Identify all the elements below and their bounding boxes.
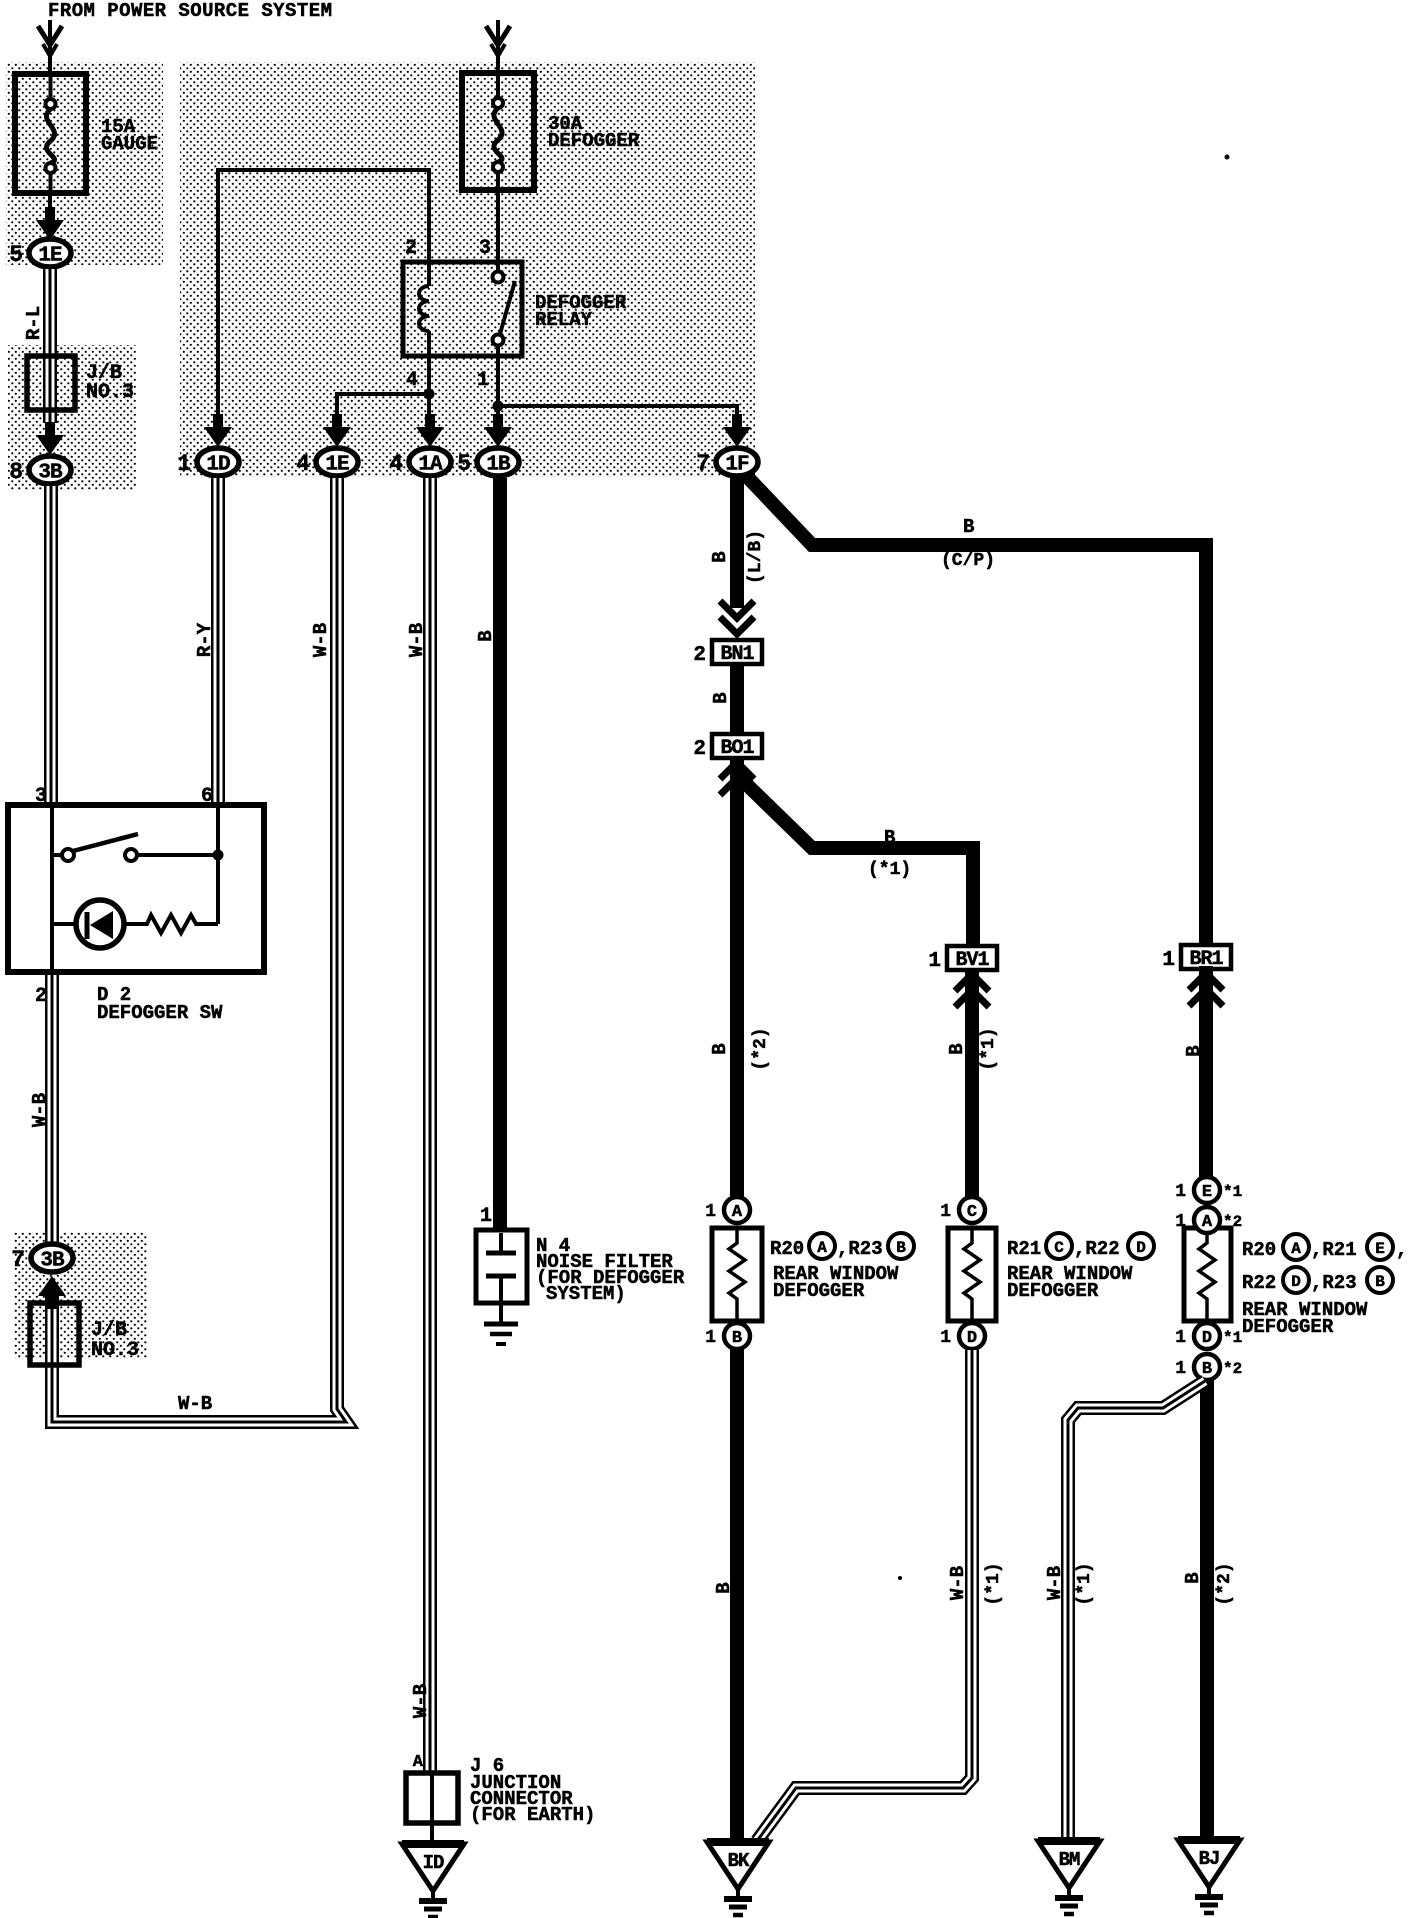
svg-text:8: 8 xyxy=(9,459,23,485)
svg-text:A: A xyxy=(1291,1240,1301,1258)
svg-text:1A: 1A xyxy=(418,454,443,477)
svg-text:,R23: ,R23 xyxy=(1311,1272,1357,1294)
scan speck 2 xyxy=(898,1576,902,1580)
chevron arrow down into BN1 xyxy=(720,601,754,618)
svg-text:W-B: W-B xyxy=(947,1566,969,1600)
svg-text:3B: 3B xyxy=(40,1250,65,1273)
svg-text:BN1: BN1 xyxy=(720,643,754,666)
defogger 3 pin E *1 xyxy=(1175,1177,1242,1203)
svg-text:1: 1 xyxy=(940,1328,951,1348)
svg-text:3: 3 xyxy=(479,237,491,260)
label: N 4 NOISE FILTER (FOR DEFOGGER SYSTEM) xyxy=(536,1235,685,1305)
connector 4 (1E) xyxy=(296,448,358,477)
svg-text:R21: R21 xyxy=(1007,1238,1041,1260)
svg-text:C: C xyxy=(1054,1239,1064,1257)
label: R20 (A), R23 (B) REAR WINDOW DEFOGGER xyxy=(770,1233,914,1302)
svg-text:D: D xyxy=(1202,1329,1212,1348)
wire B (C/P): 1F across to BR1 xyxy=(737,466,1206,947)
svg-text:DEFOGGER SW: DEFOGGER SW xyxy=(97,1002,223,1024)
chevron arrow up into BR1 xyxy=(1189,973,1223,990)
fuse 30A DEFOGGER xyxy=(462,72,534,191)
svg-text:W-B: W-B xyxy=(406,623,428,657)
svg-text:3B: 3B xyxy=(38,462,63,485)
label: J 6 JUNCTION CONNECTOR (FOR EARTH) xyxy=(470,1755,595,1826)
wire B: BR1 down to defogger 3 xyxy=(1199,966,1213,1177)
junction block J/B No.3 (upper) xyxy=(27,356,75,410)
svg-text:R20: R20 xyxy=(1242,1239,1276,1261)
svg-text:1E: 1E xyxy=(38,245,62,268)
svg-text:2: 2 xyxy=(405,237,417,260)
svg-text:W-B: W-B xyxy=(1044,1566,1066,1600)
arrow into connector 1A xyxy=(416,414,444,447)
svg-text:1: 1 xyxy=(1162,949,1175,972)
defogger 2 pin C xyxy=(940,1197,985,1223)
svg-text:,: , xyxy=(1396,1239,1407,1261)
svg-text:2: 2 xyxy=(35,985,47,1008)
svg-text:6: 6 xyxy=(201,785,213,808)
wire W-B: 3B down to defogger switch pin 3 xyxy=(44,486,58,806)
svg-text:A: A xyxy=(817,1239,827,1257)
svg-text:A: A xyxy=(732,1203,743,1222)
svg-text:B: B xyxy=(1375,1273,1385,1291)
svg-text:1: 1 xyxy=(940,1202,951,1222)
connector 7 (3B) lower xyxy=(11,1244,73,1273)
wire B (*2): defogger 3 to ground BJ xyxy=(1200,1380,1214,1844)
svg-text:FROM POWER SOURCE SYSTEM: FROM POWER SOURCE SYSTEM xyxy=(48,0,332,22)
power feed arrow (middle) xyxy=(486,26,510,45)
svg-text:W-B: W-B xyxy=(410,1684,432,1718)
svg-text:NO.3: NO.3 xyxy=(91,1339,139,1362)
svg-text:E: E xyxy=(1375,1240,1385,1258)
svg-text:(FOR EARTH): (FOR EARTH) xyxy=(470,1804,595,1826)
svg-text:4: 4 xyxy=(389,451,403,477)
svg-text:D: D xyxy=(1136,1239,1146,1257)
svg-text:1: 1 xyxy=(928,950,941,973)
svg-text:(*1): (*1) xyxy=(984,1562,1004,1605)
svg-text:1: 1 xyxy=(480,1205,492,1228)
svg-text:5: 5 xyxy=(457,451,471,477)
svg-text:1: 1 xyxy=(1175,1182,1186,1202)
svg-text:D: D xyxy=(1291,1273,1301,1291)
connector 1 (BR1) xyxy=(1162,945,1231,972)
wire B: defogger 1 to ground BK xyxy=(730,1349,744,1846)
defogger 3 pin D *1 xyxy=(1175,1323,1242,1349)
svg-text:B: B xyxy=(963,516,974,538)
svg-text:*1: *1 xyxy=(1223,1329,1242,1347)
svg-text:BM: BM xyxy=(1059,1849,1080,1871)
svg-text:(*1): (*1) xyxy=(1075,1562,1095,1605)
shaded junction-block region (15A fuse / 1E) xyxy=(6,62,163,265)
noise filter N 4 (for defogger system) xyxy=(476,1230,527,1344)
svg-text:B: B xyxy=(710,692,732,703)
connector 5 (1E) xyxy=(9,239,71,268)
svg-text:E: E xyxy=(1202,1183,1212,1202)
svg-text:(*2): (*2) xyxy=(751,1027,771,1070)
ground BM xyxy=(1038,1841,1100,1914)
svg-text:SYSTEM): SYSTEM) xyxy=(546,1283,626,1305)
svg-text:RELAY: RELAY xyxy=(535,309,593,331)
wire B (*2): BO1 down to defogger 1 xyxy=(730,758,744,1198)
arrow into connector 1D xyxy=(204,414,232,447)
svg-text:1: 1 xyxy=(477,369,489,392)
svg-text:1: 1 xyxy=(705,1202,716,1222)
svg-text:1F: 1F xyxy=(725,454,749,477)
wire W-B (*1): defogger 2 to ground BK xyxy=(757,1350,972,1841)
svg-text:A: A xyxy=(413,1753,424,1772)
fuse 15A GAUGE xyxy=(15,73,86,194)
svg-text:A: A xyxy=(1202,1213,1213,1232)
connector 5 (1B) xyxy=(457,448,519,477)
wire W-B: 1E down, across, up through J/B No.3 to switch pin 2 xyxy=(52,478,346,1422)
svg-text:DEFOGGER: DEFOGGER xyxy=(773,1280,865,1302)
wire B (*1): BV1 down to defogger 2 xyxy=(965,968,979,1198)
svg-text:B: B xyxy=(896,1239,906,1257)
svg-text:,R22: ,R22 xyxy=(1074,1238,1120,1260)
shaded junction-block region (J/B No.3 upper) xyxy=(8,345,136,490)
svg-text:R20: R20 xyxy=(770,1238,804,1260)
svg-text:BO1: BO1 xyxy=(720,737,754,760)
junction connector J 6 (for earth) xyxy=(406,1773,458,1823)
defogger switch D 2 xyxy=(8,805,264,972)
svg-text:5: 5 xyxy=(9,242,23,268)
svg-text:1D: 1D xyxy=(206,454,230,477)
svg-text:1E: 1E xyxy=(325,454,349,477)
wire: relay pin 1 to connectors 1B and 1F xyxy=(498,356,737,424)
chevron arrow up into BV1 xyxy=(955,974,989,991)
defogger 1 pin A xyxy=(705,1197,750,1223)
svg-text:R22: R22 xyxy=(1242,1272,1276,1294)
svg-text:DEFOGGER: DEFOGGER xyxy=(1242,1316,1334,1338)
wire W-B: defogger switch pin 2 down to 3B xyxy=(45,972,59,1246)
wire: 15A fuse to connector 1E xyxy=(48,193,52,222)
svg-text:W-B: W-B xyxy=(29,1093,51,1127)
svg-text:W-B: W-B xyxy=(178,1393,212,1415)
ground BJ xyxy=(1178,1840,1240,1913)
svg-text:DEFOGGER: DEFOGGER xyxy=(1007,1280,1099,1302)
svg-text:(*1): (*1) xyxy=(868,860,911,880)
svg-text:7: 7 xyxy=(696,451,710,477)
svg-text:1B: 1B xyxy=(486,454,511,477)
svg-text:1: 1 xyxy=(1175,1212,1186,1232)
connector 2 (BO1) xyxy=(693,734,762,761)
svg-text:BJ: BJ xyxy=(1199,1848,1220,1870)
svg-text:W-B: W-B xyxy=(310,623,332,657)
svg-text:*1: *1 xyxy=(1223,1183,1242,1201)
svg-text:(*1): (*1) xyxy=(979,1027,999,1070)
svg-text:C: C xyxy=(967,1203,977,1222)
shaded junction-block region (J/B No.3 lower) xyxy=(14,1232,147,1359)
svg-text:B: B xyxy=(713,1582,735,1593)
power feed arrow (left) xyxy=(38,26,62,45)
rear window defogger 3 (R20-R23) xyxy=(1184,1228,1231,1321)
arrow into connector 3B xyxy=(36,422,64,455)
wire R-L: 1E to J/B No.3 xyxy=(43,269,57,423)
defogger 1 pin B xyxy=(705,1323,750,1349)
wire W-B (*1): defogger 3 to ground BM xyxy=(1068,1381,1205,1844)
svg-text:R-L: R-L xyxy=(23,306,45,340)
svg-text:B: B xyxy=(946,1043,968,1054)
wire: J 6 to ground ID xyxy=(430,1823,434,1848)
svg-text:7: 7 xyxy=(11,1247,25,1273)
ground ID xyxy=(402,1844,464,1917)
connector 8 (3B) xyxy=(9,456,71,485)
label: R21 (C), R22 (D) REAR WINDOW DEFOGGER xyxy=(1007,1233,1154,1302)
svg-text:1: 1 xyxy=(1175,1359,1186,1379)
defogger 2 pin D xyxy=(940,1323,985,1349)
svg-text:B: B xyxy=(709,551,731,562)
svg-text:,R23: ,R23 xyxy=(837,1238,883,1260)
svg-text:B: B xyxy=(709,1043,731,1054)
svg-text:NO.3: NO.3 xyxy=(86,381,134,404)
svg-text:4: 4 xyxy=(406,369,418,392)
svg-text:2: 2 xyxy=(693,738,706,761)
connector 1 (1D) xyxy=(177,448,239,477)
scan speck xyxy=(1225,155,1230,160)
connector 2 (BN1) xyxy=(693,640,762,667)
connector 7 (1F) xyxy=(696,448,758,477)
wire W-B: 1A down to junction connector J 6 xyxy=(423,478,437,1773)
svg-text:(*2): (*2) xyxy=(1215,1562,1235,1605)
svg-text:B: B xyxy=(1183,1045,1205,1056)
arrow up into connector 3B lower xyxy=(38,1276,66,1309)
junction dot (relay pin 4 branch) xyxy=(424,389,435,400)
svg-text:B: B xyxy=(1202,1360,1212,1379)
wire: relay pin 4 to connectors 1E and 1A xyxy=(337,356,429,424)
defogger 3 pin A *2 xyxy=(1175,1207,1242,1233)
wire: 30A fuse to relay pin 3 xyxy=(496,190,500,273)
svg-text:(C/P): (C/P) xyxy=(941,551,995,571)
svg-text:B: B xyxy=(475,630,497,641)
svg-text:*2: *2 xyxy=(1223,1360,1242,1378)
arrow into connector 1E (lower) xyxy=(323,414,351,447)
wire: power feed to 30A fuse xyxy=(496,20,500,76)
svg-text:B: B xyxy=(732,1329,742,1348)
arrow into connector 1B xyxy=(484,414,512,447)
svg-text:1: 1 xyxy=(1175,1328,1186,1348)
chevron arrow up into BO1 xyxy=(720,762,754,779)
connector 4 (1A) xyxy=(389,448,451,477)
svg-text:,R21: ,R21 xyxy=(1311,1239,1357,1261)
svg-text:3: 3 xyxy=(35,785,47,808)
svg-text:*2: *2 xyxy=(1223,1213,1242,1231)
svg-text:GAUGE: GAUGE xyxy=(101,133,158,155)
wire B: BN1 to BO1 xyxy=(730,664,744,734)
svg-text:1: 1 xyxy=(177,451,191,477)
wire B (*1): branch to BV1 xyxy=(739,777,973,947)
wire: relay pin 2 up and over to connector 1D xyxy=(218,170,429,424)
label: R20 (A), R21 (E), R22 (D), R23 (B) REAR WINDOW DEFOGGER xyxy=(1242,1234,1407,1338)
shaded junction-block region (fuse and relay block) xyxy=(180,62,755,477)
svg-text:B: B xyxy=(884,827,895,849)
defogger relay xyxy=(403,262,522,356)
svg-text:1: 1 xyxy=(705,1328,716,1348)
relay pin numbers xyxy=(405,237,491,392)
svg-text:(L/B): (L/B) xyxy=(746,530,766,584)
arrow into connector 1F xyxy=(723,414,751,447)
svg-text:D: D xyxy=(967,1329,977,1348)
junction dot (relay pin 1 branch) xyxy=(493,401,504,412)
svg-text:BK: BK xyxy=(728,1850,750,1872)
arrow into connector 1E xyxy=(36,207,64,240)
rear window defogger 1 (R20/R23) xyxy=(712,1228,762,1321)
wire R-Y: 1D to defogger switch pin 6 xyxy=(211,478,225,806)
svg-text:4: 4 xyxy=(296,451,310,477)
ground BK xyxy=(707,1842,769,1915)
wire B: 1B down to noise filter xyxy=(493,478,507,1232)
svg-text:R-Y: R-Y xyxy=(194,622,216,657)
svg-text:2: 2 xyxy=(693,644,706,667)
defogger 3 pin B *2 xyxy=(1175,1354,1242,1380)
svg-text:B: B xyxy=(1182,1572,1204,1583)
wire: power feed to 15A fuse xyxy=(48,20,52,76)
connector 1 (BV1) xyxy=(928,946,997,973)
junction block J/B No.3 (lower) xyxy=(30,1303,79,1365)
svg-text:DEFOGGER: DEFOGGER xyxy=(548,130,640,152)
rear window defogger 2 (R21/R22) xyxy=(948,1228,996,1321)
svg-text:ID: ID xyxy=(423,1852,444,1874)
defogger switch pin numbers xyxy=(35,785,213,1008)
wire B (L/B): 1F down to BN1 xyxy=(730,470,744,608)
